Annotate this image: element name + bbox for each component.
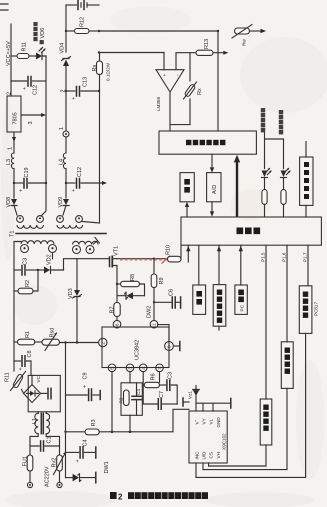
diode VD2 (38, 254, 64, 273)
box temperature sensor 温度传感器 (213, 245, 226, 330)
edge continuation marks (0, 4, 8, 10)
resistor Rs current sense (92, 51, 111, 91)
zener VD3 (68, 259, 82, 343)
T1 secondary winding 2 (57, 216, 83, 229)
wire pin1 to pin8 supply (158, 325, 180, 351)
network R3 C4 box (119, 372, 143, 432)
svg-text:C8: C8 (27, 350, 33, 357)
svg-text:R1: R1 (25, 331, 31, 338)
capacitor C2 bridge output (41, 388, 51, 398)
label (绿)已充满 (279, 110, 283, 134)
UC3842 pin 3 (126, 364, 134, 372)
net VCC=+5V label (6, 41, 12, 66)
svg-text:R11: R11 (5, 372, 11, 382)
svg-text:X9C102: X9C102 (222, 433, 227, 450)
svg-text:-: - (175, 74, 180, 76)
top rail wire (99, 30, 219, 32)
regulator 7805 (7, 92, 22, 132)
thick sample bus arrow (234, 155, 240, 217)
varistor Rv2 (52, 446, 66, 482)
UC3842 pin 1 (150, 320, 158, 328)
svg-text:0.1Ω/2W: 0.1Ω/2W (106, 62, 111, 81)
svg-text:+: + (18, 367, 24, 370)
svg-text:+: + (71, 97, 77, 100)
T1 primary winding A (14, 241, 57, 342)
op-amp output wire (169, 92, 171, 131)
diode VD9 (58, 197, 69, 215)
svg-text:VD3: VD3 (68, 288, 74, 299)
svg-text:+: + (71, 189, 77, 192)
optocoupler C 线性光耦 (209, 399, 272, 466)
svg-text:R13: R13 (204, 39, 210, 49)
wire P1.7 (303, 245, 309, 286)
svg-text:R3: R3 (119, 397, 124, 403)
svg-text:A/D: A/D (212, 185, 218, 194)
svg-text:R2: R2 (25, 280, 31, 287)
svg-text:L1: L1 (32, 418, 38, 424)
svg-text:T1: T1 (10, 231, 16, 237)
svg-text:R9: R9 (159, 277, 165, 284)
svg-text:+: + (83, 385, 89, 388)
IC U2 UC3842 (102, 327, 169, 368)
capacitor C9 (66, 372, 101, 400)
T1 primary winding B (73, 238, 100, 254)
diode VD4 (60, 43, 71, 91)
sense branch wire (99, 52, 164, 54)
wire VCC vertical (10, 24, 12, 96)
LED charging red (262, 168, 272, 177)
bridge rectifier VC (24, 375, 61, 411)
svg-text:Rsd: Rsd (50, 328, 56, 338)
svg-text:+: + (22, 87, 28, 90)
svg-text:7805: 7805 (13, 112, 19, 124)
capacitor C3b (160, 372, 178, 404)
svg-text:C4: C4 (136, 389, 141, 395)
UC3842 pin 6 (113, 320, 121, 328)
svg-text:5: 5 (110, 367, 115, 370)
UC3842 pin 2 (99, 338, 107, 346)
svg-text:CS: CS (208, 452, 213, 458)
svg-text:C1: C1 (47, 436, 53, 443)
optocoupler A 线性光耦 PC817 (196, 286, 319, 478)
thermistor RT1 (5, 342, 26, 393)
wire op-amp input B (176, 53, 196, 70)
svg-text:PC: PC (240, 304, 245, 311)
box relay driver 继电器驱动 (300, 142, 313, 217)
svg-text:R10: R10 (166, 245, 172, 255)
box A/D (207, 173, 221, 202)
zener DW1 (66, 461, 111, 483)
UC3842 pin 5 (108, 364, 116, 372)
svg-text:P1.6: P1.6 (282, 252, 287, 262)
capacitor C12 (5V rail) (11, 77, 46, 96)
wire op-amp input A (163, 53, 165, 70)
svg-text:C3: C3 (23, 258, 29, 265)
wire P1.5 (261, 245, 267, 399)
svg-text:C13: C13 (83, 77, 89, 87)
svg-text:2: 2 (101, 342, 106, 345)
varistor Rw (232, 25, 266, 47)
svg-text:FU1: FU1 (23, 456, 29, 466)
resistor R6 (143, 372, 159, 388)
resistor R13 (196, 39, 228, 55)
LED VD6 (36, 48, 46, 60)
resistor R1 (14, 331, 42, 345)
resistor R10 (166, 245, 182, 262)
UC3842 pin 7 (156, 364, 164, 372)
wire A/D to MCU arrow (210, 202, 214, 217)
UC3842 pin 8 (165, 342, 174, 351)
wire detection to A/D arrow (210, 154, 214, 172)
svg-text:Rw: Rw (242, 39, 247, 46)
svg-text:AC220V: AC220V (45, 466, 51, 487)
svg-text:C7: C7 (159, 391, 165, 398)
resistor R8 (116, 274, 145, 296)
wire LED to node column (41, 56, 46, 216)
box keyboard 键盘 (193, 245, 206, 314)
svg-text:2: 2 (118, 493, 123, 502)
red pen annotation dashes (120, 256, 170, 264)
resistor R12 (65, 17, 100, 34)
svg-text:VC: VC (36, 375, 41, 382)
terminal plug left (27, 482, 32, 487)
label 电源指示 VD6红 (33, 22, 46, 44)
caption 图2 电动车智能充电器硬件电路 (110, 492, 208, 502)
X9C102 top pin stubs (196, 398, 231, 411)
op-amp U1 LM358 (156, 70, 184, 111)
label AC220V (45, 466, 51, 487)
battery pack symbol (66, 1, 99, 10)
svg-text:VD2: VD2 (47, 254, 53, 265)
diode VD8 (6, 197, 17, 215)
svg-text:VD9: VD9 (58, 197, 64, 208)
IC U3 X9C102 digital pot (189, 411, 227, 463)
svg-text:R6: R6 (151, 373, 157, 380)
inductor L3 (6, 153, 14, 198)
svg-text:U/D: U/D (201, 451, 206, 460)
resistor R3 lower (64, 419, 99, 434)
svg-text:8: 8 (167, 345, 172, 348)
svg-text:Vz1: Vz1 (188, 391, 193, 399)
LED full green (281, 168, 291, 177)
svg-text:VH: VH (216, 452, 221, 458)
svg-text:+: + (19, 189, 25, 192)
svg-text:1: 1 (152, 323, 157, 326)
svg-text:R7: R7 (110, 306, 116, 313)
svg-text:Rx: Rx (197, 88, 203, 95)
svg-text:C19: C19 (24, 167, 30, 177)
svg-text:L3: L3 (6, 159, 12, 165)
label DW2 (147, 306, 153, 318)
svg-text:+: + (162, 74, 167, 77)
svg-text:C4: C4 (83, 439, 89, 446)
label (红)正充电 (261, 108, 265, 132)
capacitor C3 snubber (14, 258, 39, 275)
wire rail to detection box (217, 31, 219, 131)
svg-text:3: 3 (128, 367, 133, 370)
svg-text:VL: VL (208, 418, 213, 424)
svg-text:Rs: Rs (92, 65, 98, 72)
box host PC 上位PC (235, 245, 247, 314)
MCU box 单片机 (181, 217, 321, 245)
svg-text:R3: R3 (91, 419, 97, 426)
svg-text:GND: GND (216, 417, 221, 428)
fuse FU1 (23, 446, 33, 482)
pin 1 wire of 7805 with arrow (8, 132, 17, 153)
svg-text:DW2: DW2 (147, 306, 153, 318)
svg-text:INC: INC (194, 451, 199, 460)
svg-text:1: 1 (59, 127, 65, 130)
svg-text:C9: C9 (83, 372, 89, 379)
transformer T1 core (10, 231, 107, 237)
resistor R2 (14, 270, 38, 294)
svg-text:C12: C12 (33, 85, 39, 95)
svg-text:P1.7: P1.7 (303, 252, 308, 262)
svg-text:V‶: V‶ (194, 419, 199, 424)
svg-text:2: 2 (7, 92, 13, 95)
wire MCU pin arrow left (186, 245, 190, 262)
svg-text:LM358: LM358 (156, 97, 161, 111)
terminal plug right (57, 482, 62, 487)
optocoupler B 线性光耦 (203, 342, 293, 470)
resistor R11 (11, 42, 36, 59)
resistor R7 (110, 303, 121, 321)
zener Vz1 (188, 386, 200, 404)
wire UC pin5 to bus (111, 372, 113, 432)
wire LED tie bar (265, 133, 284, 169)
capacitor C19 (13, 167, 47, 192)
T1 secondary winding 1 (17, 216, 44, 229)
svg-text:VT1: VT1 (114, 246, 120, 256)
svg-text:+: + (75, 459, 81, 462)
wire winding2 to output column (82, 91, 100, 223)
wire MCU to display with arrow (185, 202, 189, 217)
box detection circuit 电流检测电路 (159, 131, 256, 154)
wire P1.6 (282, 245, 288, 342)
capacitor C7 (143, 385, 177, 409)
wire drain to R10 (117, 258, 168, 260)
choke L1 (30, 412, 60, 442)
svg-text:DW1: DW1 (104, 461, 110, 473)
svg-text:7: 7 (157, 367, 162, 370)
feedback wire (171, 99, 190, 125)
svg-text:R8: R8 (130, 274, 136, 281)
svg-text:Rv2: Rv2 (52, 458, 58, 468)
capacitor C1 (30, 436, 60, 451)
svg-text:C3: C3 (168, 372, 174, 379)
resistor for red LED (262, 178, 267, 218)
svg-text:1: 1 (8, 147, 14, 150)
svg-text:6: 6 (115, 323, 120, 326)
capacitor C13 (61, 77, 101, 100)
box display 显示 (180, 173, 194, 202)
zener DW parallel (117, 284, 145, 303)
potentiometer Rsd (42, 328, 98, 351)
svg-text:R11: R11 (22, 42, 28, 52)
wire clamp to gate line (64, 259, 110, 270)
capacitor C12 (output) (65, 167, 107, 192)
node terminal circle (59, 91, 69, 137)
capacitor C6 (153, 289, 181, 308)
capacitor C4 aux (66, 439, 96, 462)
resistor R9 (151, 259, 165, 321)
pin 3 output wire of 7805 (21, 113, 46, 125)
X9C102 bottom pin stubs (196, 463, 209, 477)
resistor for green LED (281, 178, 286, 218)
svg-text:C12: C12 (77, 167, 83, 177)
svg-text:PC817: PC817 (314, 302, 319, 316)
svg-text:4: 4 (141, 367, 146, 370)
svg-text:VD6: VD6 (40, 28, 46, 39)
capacitor C8 (14, 350, 33, 375)
transistor VT1 MOSFET (110, 246, 120, 284)
ground bus wire (99, 409, 189, 433)
svg-text:L4: L4 (59, 159, 65, 165)
svg-text:P1.5: P1.5 (261, 252, 266, 262)
svg-text:UC3842: UC3842 (135, 340, 141, 360)
wire battery left leg (65, 5, 67, 52)
svg-text:VY: VY (201, 418, 206, 424)
svg-text:R12: R12 (80, 17, 86, 27)
svg-text:VD4: VD4 (60, 43, 66, 54)
UC3842 pin 4 (139, 364, 147, 372)
supply bar terminal left (183, 398, 189, 406)
svg-text:3: 3 (28, 121, 34, 124)
svg-text:C6: C6 (169, 289, 175, 296)
svg-text:VD8: VD8 (6, 197, 12, 208)
aux rail vertical (65, 343, 67, 478)
inductor L4 (59, 137, 67, 198)
varistor Rx (184, 53, 204, 99)
